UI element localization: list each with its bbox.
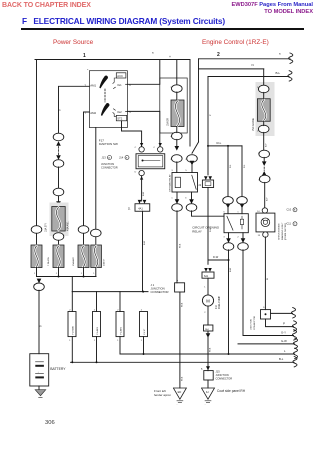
connector pair top x265 xyxy=(259,150,270,158)
subtitle Engine Control xyxy=(202,39,269,46)
arrow below 2A1 xyxy=(206,333,211,338)
junction connector bus dot xyxy=(142,160,161,162)
svg-text:P: P xyxy=(210,114,212,116)
gauge fuse halo xyxy=(256,82,275,136)
svg-text:ACC: ACC xyxy=(117,74,123,78)
svg-text:*: * xyxy=(152,51,154,56)
label junction connector xyxy=(101,162,118,170)
svg-text:B-L: B-L xyxy=(276,71,281,75)
junction connector J1 box xyxy=(175,279,185,292)
wire shortpin down xyxy=(207,188,209,261)
wire P right a xyxy=(271,308,296,318)
svg-text:W-B: W-B xyxy=(210,347,212,352)
svg-text:B-W: B-W xyxy=(144,240,146,245)
pin 7 AM2 label xyxy=(85,111,97,115)
label fuel pump xyxy=(216,295,221,309)
wire J1 to ED ground xyxy=(179,292,181,388)
wire N xyxy=(199,63,264,69)
svg-text:22: 22 xyxy=(199,184,202,187)
pin 2 AM1 label xyxy=(85,83,97,87)
wire label CO left out xyxy=(230,267,232,272)
IG2 terminal xyxy=(113,109,127,114)
pin 6 IG1 xyxy=(129,83,131,87)
svg-text:+: + xyxy=(169,55,171,59)
svg-text:10A ST: 10A ST xyxy=(103,258,106,266)
svg-text:1: 1 xyxy=(81,273,83,275)
svg-text:B-Y: B-Y xyxy=(266,197,268,201)
connector gauge bottom xyxy=(258,92,269,132)
connector col2 d xyxy=(53,233,64,241)
svg-text:1: 1 xyxy=(83,53,86,59)
junction pin bottom xyxy=(139,170,144,179)
svg-text:FL AM2: FL AM2 xyxy=(119,326,122,334)
connector CO left xyxy=(223,197,234,205)
svg-text:W-B: W-B xyxy=(180,243,182,248)
ST2 contact arrow xyxy=(113,112,117,116)
svg-text:W-B: W-B xyxy=(182,302,184,307)
label front left fender apron xyxy=(154,389,171,397)
svg-text:FL ST: FL ST xyxy=(144,328,146,335)
ignition switch name xyxy=(99,138,118,146)
wire to battery xyxy=(38,290,40,354)
arrow pair down x265 xyxy=(262,161,267,166)
wire col1 e to fuse xyxy=(36,233,38,245)
svg-text:R-L: R-L xyxy=(217,141,222,145)
svg-text:2: 2 xyxy=(117,309,119,311)
svg-text:JUNCTION: JUNCTION xyxy=(216,373,229,377)
wire dashed col2 xyxy=(58,147,60,156)
fuse F2 xyxy=(53,245,64,268)
arrow pair up x265 xyxy=(262,171,267,176)
svg-text:··: ·· xyxy=(177,404,179,406)
wire G-W xyxy=(238,338,298,348)
wire label short down xyxy=(210,227,212,232)
wire check engine down xyxy=(265,237,269,310)
label cowl side panel xyxy=(217,389,246,393)
label circuit opening relay xyxy=(192,226,219,234)
label check engine warning xyxy=(279,222,288,240)
svg-text:1: 1 xyxy=(141,340,143,342)
pin 5 IG2 xyxy=(129,110,131,114)
wire R-L xyxy=(208,141,242,146)
svg-text:1: 1 xyxy=(93,273,95,275)
wire label battery xyxy=(40,325,43,327)
ground mark ED xyxy=(177,401,183,406)
ignition lever AM1 contact xyxy=(99,76,108,89)
wire col1 from border xyxy=(36,60,38,227)
svg-text:M: M xyxy=(206,299,210,304)
wire CO relay feed right xyxy=(242,146,246,197)
link BACK TO CHAPTER INDEX xyxy=(2,2,91,9)
junction dot R-L xyxy=(207,145,209,147)
wire J15 to IH xyxy=(207,380,209,388)
wire label 10 xyxy=(59,109,62,111)
junction connector box J13 J14 xyxy=(136,154,165,169)
battery ground xyxy=(35,386,46,397)
subtitle Power Source xyxy=(53,39,93,46)
svg-text:J14: J14 xyxy=(119,156,124,160)
svg-text:15A GAUGE: 15A GAUGE xyxy=(252,118,255,131)
wire fuse2 to bus xyxy=(58,268,60,277)
svg-text:FL AM1: FL AM1 xyxy=(96,326,99,334)
svg-text:B: B xyxy=(40,325,43,327)
arrow relay in right xyxy=(190,161,195,166)
connector col1 xyxy=(31,226,42,234)
fuse GAUGE 15A xyxy=(257,99,270,122)
fuse F3 label xyxy=(72,256,75,266)
label J 1 junction connector xyxy=(151,283,169,294)
svg-text:C10: C10 xyxy=(287,209,292,212)
wire to check engine xyxy=(265,182,269,208)
fuse F4 label xyxy=(103,258,106,266)
CO relay switch xyxy=(227,216,233,230)
svg-text:··: ·· xyxy=(205,404,207,406)
svg-text:F10: F10 xyxy=(216,304,218,309)
connector col4 xyxy=(91,229,102,237)
wire shortpin drop xyxy=(207,77,209,175)
svg-text:B-L: B-L xyxy=(279,357,284,361)
svg-text:AM2: AM2 xyxy=(90,111,96,115)
EFI relay switch xyxy=(192,175,196,189)
svg-text:D-W: D-W xyxy=(213,255,219,259)
wire CO out left down xyxy=(228,250,230,354)
FL4 to L bus xyxy=(143,337,145,354)
arrow up col2 xyxy=(56,141,61,146)
bus1 to bus2 wire xyxy=(71,277,73,292)
wire CO pins xyxy=(228,204,242,214)
bus L xyxy=(120,348,298,358)
panel 1 border (Power Source) xyxy=(35,60,190,147)
panel 2 border xyxy=(199,53,293,142)
wire ST2 to junction xyxy=(122,121,142,147)
connector CO right xyxy=(237,197,248,205)
svg-text:IG2: IG2 xyxy=(117,110,122,114)
connector 2A1 box xyxy=(204,325,213,331)
connector 4A1 box xyxy=(135,204,150,212)
wire IG1 to border xyxy=(127,60,159,85)
drop to FL1 xyxy=(71,292,73,312)
svg-text:3: 3 xyxy=(171,170,173,172)
svg-text:A: A xyxy=(108,157,110,160)
connector EFI bottom xyxy=(172,127,183,140)
junction dot bus1 b xyxy=(83,276,85,278)
connector 6A1 box xyxy=(202,272,214,278)
arrow CO out right xyxy=(241,238,246,243)
drop to FL2 xyxy=(96,292,98,312)
svg-text:CONNECTOR: CONNECTOR xyxy=(151,290,169,294)
battery cells xyxy=(36,362,44,378)
arrows into 6A1 xyxy=(204,268,212,272)
svg-text:4A1: 4A1 xyxy=(138,207,143,211)
wire EFI out to CO relay entry xyxy=(223,215,225,217)
wire IG2 to junction xyxy=(127,111,159,146)
svg-text:1: 1 xyxy=(34,273,36,275)
svg-text:D: D xyxy=(135,171,137,173)
connector relay out left xyxy=(172,192,183,211)
svg-text:CONNECTOR: CONNECTOR xyxy=(254,316,256,330)
wire junction to 4A1 xyxy=(141,176,143,201)
svg-text:[COMB. METER]: [COMB. METER] xyxy=(285,223,287,240)
svg-text:CONNECTOR: CONNECTOR xyxy=(101,166,118,170)
connector EFI top xyxy=(172,85,183,93)
connector CO out right xyxy=(238,233,249,251)
svg-text:ED: ED xyxy=(178,390,182,394)
short pin box 1J1 xyxy=(199,180,214,188)
wire pump to J15 xyxy=(208,331,212,371)
svg-text:G-W: G-W xyxy=(281,339,287,343)
svg-text:Cowl side panel RH: Cowl side panel RH xyxy=(217,389,246,393)
ST2 terminal box xyxy=(116,115,126,120)
svg-text:2: 2 xyxy=(94,309,96,311)
ignition switch F17 box xyxy=(89,71,127,128)
svg-text:R-L: R-L xyxy=(244,164,246,168)
FL1 to ground bus xyxy=(71,337,73,363)
battery box xyxy=(30,354,49,386)
connector 1O col2 xyxy=(53,160,64,168)
fuse EFI 15A xyxy=(171,100,184,127)
wire 6A1 to pump xyxy=(204,278,208,295)
svg-text:1: 1 xyxy=(56,273,58,275)
pin specks battery wire xyxy=(33,285,35,287)
svg-text:AM1: AM1 xyxy=(90,83,96,87)
wire label W-B a xyxy=(180,243,182,248)
svg-text:+: + xyxy=(38,371,40,373)
wire col2 a xyxy=(58,167,60,189)
junction pin top A xyxy=(139,143,144,152)
link EWD307F Pages From Manual xyxy=(231,2,313,16)
svg-text:*: * xyxy=(279,52,281,57)
svg-text:W-B: W-B xyxy=(182,376,184,381)
connector EFI pair xyxy=(172,139,183,162)
label junction connector right xyxy=(251,316,257,330)
svg-text:JUNCTION: JUNCTION xyxy=(101,162,114,166)
circuit opening relay box xyxy=(224,214,248,233)
wire AM2 xyxy=(84,112,90,226)
bus B-L xyxy=(71,357,298,367)
wire label 2F xyxy=(210,114,212,116)
junction block box EFI xyxy=(160,78,187,133)
connector pair bottom x265 xyxy=(259,157,270,182)
svg-text:fender apron: fender apron xyxy=(154,393,171,397)
ground wire from relay xyxy=(176,211,178,283)
wire fuse1 to bus xyxy=(36,268,38,277)
junction dot BL a xyxy=(71,361,73,363)
check engine light box xyxy=(256,213,275,232)
svg-text:40A AM1: 40A AM1 xyxy=(67,221,70,231)
pin circle check bottom xyxy=(258,232,269,237)
fuse F3 xyxy=(78,245,89,268)
svg-text:JUNCTION: JUNCTION xyxy=(251,319,253,330)
svg-text:D: D xyxy=(263,307,265,309)
arrows into 4A1 xyxy=(138,200,147,204)
svg-text:P: P xyxy=(283,321,285,325)
ignition lever AM2 contact xyxy=(101,103,110,116)
svg-text:IH: IH xyxy=(206,390,209,394)
wire label W-B b xyxy=(182,302,184,381)
wire border to EFI fuse xyxy=(176,60,178,86)
wire relay out right to CO relay xyxy=(192,211,225,216)
fusible link box 3 xyxy=(116,309,124,342)
svg-text:2: 2 xyxy=(204,312,206,314)
pin specks ign xyxy=(87,69,89,71)
svg-text:21: 21 xyxy=(128,207,131,210)
check engine bulb xyxy=(261,218,270,227)
fuse gauge label xyxy=(252,118,255,131)
wire gauge down xyxy=(264,132,268,150)
EFI relay label xyxy=(168,174,171,192)
wire N drop xyxy=(263,69,265,86)
wire fuel pump top xyxy=(207,260,209,264)
ACC contact arrow xyxy=(113,78,117,84)
IG1 terminal xyxy=(113,83,127,89)
svg-text:1: 1 xyxy=(237,211,239,213)
svg-text:1: 1 xyxy=(69,340,71,342)
svg-text:EFI MAIN RELAY: EFI MAIN RELAY xyxy=(168,174,171,192)
EFI main relay box xyxy=(172,173,198,193)
svg-text:2: 2 xyxy=(237,237,239,239)
pin specks co relay xyxy=(222,199,239,250)
wire col3 e to fuse xyxy=(83,233,85,245)
label 21 xyxy=(128,207,131,210)
pin specks efi col xyxy=(170,87,187,199)
fuse output bus xyxy=(37,276,97,278)
title F ELECTRICAL WIRING DIAGRAM xyxy=(22,16,225,26)
ground triangle IH xyxy=(202,388,215,399)
diagonal wire to relay xyxy=(192,142,199,153)
arrow relay out left xyxy=(175,199,180,204)
wire col2 c xyxy=(58,196,60,207)
connector relay out right xyxy=(186,192,197,211)
svg-text:3: 3 xyxy=(185,197,187,199)
junction dot R-L b xyxy=(227,145,229,147)
svg-text:7: 7 xyxy=(85,111,87,115)
wire 4A1 to bus2 xyxy=(143,211,147,291)
FL2 to ground bus xyxy=(96,337,98,363)
battery label xyxy=(50,367,66,371)
svg-text:2A1: 2A1 xyxy=(205,328,210,331)
svg-text:FUEL PUMP: FUEL PUMP xyxy=(219,295,221,309)
title underline xyxy=(21,28,304,30)
fusible link AM2 halo xyxy=(50,203,69,237)
svg-text:15A EFI: 15A EFI xyxy=(45,223,48,232)
wire relay right pin xyxy=(191,162,193,173)
svg-text:7.5A IGN: 7.5A IGN xyxy=(47,257,50,266)
svg-text:G-Y: G-Y xyxy=(281,330,286,334)
svg-text:2: 2 xyxy=(141,309,143,311)
junction dot DW xyxy=(228,259,230,261)
wire EFI a xyxy=(176,92,178,100)
fusible link bus xyxy=(72,291,148,293)
svg-text:C: C xyxy=(135,147,137,149)
wire col4 e to fuse xyxy=(95,237,97,245)
svg-text:1: 1 xyxy=(171,197,173,199)
wire CO out right down xyxy=(243,250,297,340)
connector col3 xyxy=(78,226,89,234)
arrows into shortpin xyxy=(204,176,212,180)
svg-text:IG1: IG1 xyxy=(117,83,122,87)
svg-text:C: C xyxy=(153,147,155,149)
junction dot L bus xyxy=(228,353,230,355)
svg-text:2: 2 xyxy=(217,52,220,58)
footnote mark panel 1 xyxy=(152,51,154,56)
ACC terminal box xyxy=(116,73,126,78)
connector CO out left xyxy=(223,233,234,251)
arrow CO out left xyxy=(226,238,231,243)
footnote mark panel 2 xyxy=(279,52,281,57)
svg-text:a: a xyxy=(87,69,89,71)
wire B-L top xyxy=(208,71,292,81)
arrow relay out right xyxy=(189,199,194,204)
wire col2 e to fuse xyxy=(58,240,60,245)
wire AM1 xyxy=(59,86,90,133)
svg-text:ST2: ST2 xyxy=(117,117,122,121)
junction dot L FL4 xyxy=(143,353,145,355)
connector gauge top xyxy=(258,85,269,93)
footnote mark small xyxy=(169,55,171,59)
wire D-W to fuel pump xyxy=(208,255,229,260)
svg-text:CONNECTOR: CONNECTOR xyxy=(216,376,233,380)
fuse AM1 40A xyxy=(52,207,65,232)
svg-text:15A AM2: 15A AM2 xyxy=(72,256,75,266)
svg-text:J13: J13 xyxy=(102,156,107,160)
ground mark IH xyxy=(205,401,211,406)
fuse AM1 label xyxy=(67,221,70,231)
connector relay in right xyxy=(187,155,198,163)
label J14 xyxy=(119,156,129,160)
ignition mechanical link (dashed) xyxy=(104,89,106,102)
svg-text:B-W: B-W xyxy=(230,267,232,272)
fuse EFI label xyxy=(167,117,170,126)
arrow col2 into fuse xyxy=(56,201,61,206)
svg-text:3: 3 xyxy=(223,237,225,239)
svg-text:B-W: B-W xyxy=(143,191,145,196)
svg-text:5: 5 xyxy=(223,211,225,213)
pin specks fuse bottoms xyxy=(34,273,95,275)
svg-text:R-L: R-L xyxy=(230,164,232,168)
fusible link box 1 xyxy=(68,309,76,342)
arrow into J15 xyxy=(206,366,210,370)
svg-text:15A EFI: 15A EFI xyxy=(167,117,170,126)
junction dot bus1 a xyxy=(58,276,60,278)
arrow CO right xyxy=(240,204,245,209)
arrow CO left xyxy=(226,204,231,209)
wire fuse3 to bus xyxy=(83,268,85,277)
arrow EFI xyxy=(175,146,180,151)
ground triangle ED xyxy=(173,388,186,399)
svg-text:B-Y: B-Y xyxy=(265,143,267,147)
pin specks junction xyxy=(135,147,156,173)
svg-text:CHECK ENGINE: CHECK ENGINE xyxy=(279,223,281,240)
fuse F1 xyxy=(31,245,42,268)
fuel pump motor xyxy=(202,295,213,306)
svg-text:IGNITION SW: IGNITION SW xyxy=(99,142,118,146)
panel 2 label 2 xyxy=(217,52,220,58)
wire col4 xyxy=(95,128,97,231)
pin specks gauge col xyxy=(257,87,260,181)
junction dot BL b xyxy=(96,361,98,363)
fuse F2 label xyxy=(47,257,50,266)
connector 1M col2 xyxy=(53,133,64,141)
arrow down col2 xyxy=(56,155,61,160)
svg-text:A: A xyxy=(201,367,203,370)
wire fuse4 to bus xyxy=(95,268,97,277)
wire pump down xyxy=(204,306,208,325)
wire P right b xyxy=(266,319,297,331)
pin circle check top xyxy=(257,208,268,213)
svg-text:A: A xyxy=(177,279,179,282)
svg-text:WARNING LIGHT: WARNING LIGHT xyxy=(281,222,284,240)
svg-text:J15: J15 xyxy=(216,369,221,373)
